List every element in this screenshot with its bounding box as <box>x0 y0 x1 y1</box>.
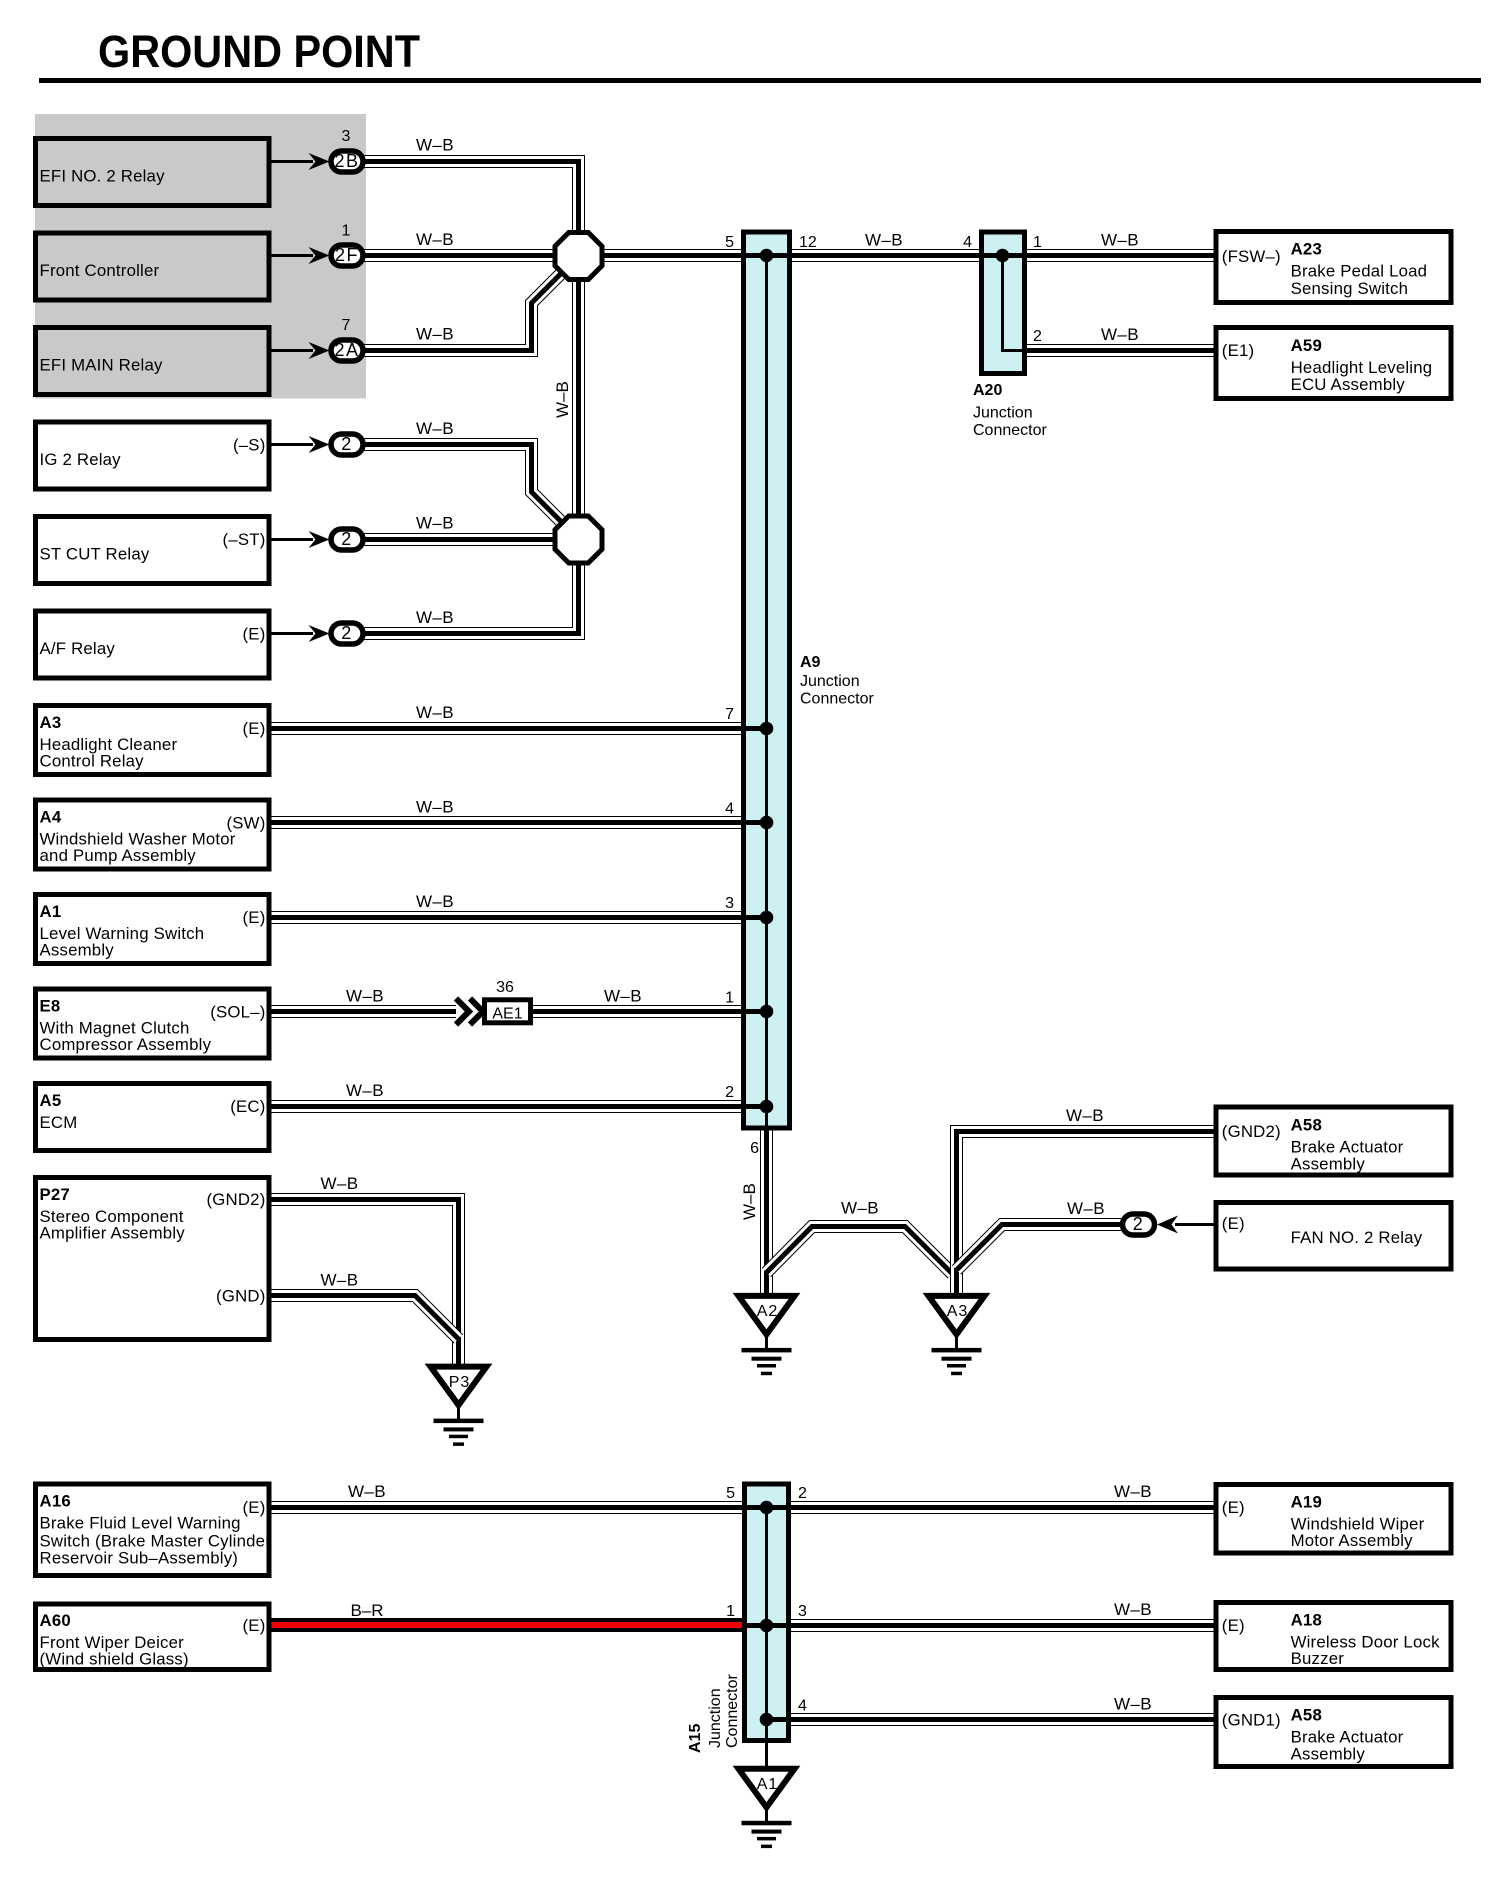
svg-text:B–R: B–R <box>350 1601 383 1620</box>
svg-text:2: 2 <box>798 1485 807 1502</box>
svg-text:W–B: W–B <box>865 231 903 250</box>
component A23 Brake Pedal Load Sensing Switch <box>1216 232 1451 303</box>
component P27 Stereo Component Amplifier Assembly <box>36 1178 270 1340</box>
pin 36 label (AE1) <box>496 979 514 996</box>
svg-text:A2: A2 <box>757 1303 779 1320</box>
svg-text:(Wind shield Glass): (Wind shield Glass) <box>40 1650 189 1669</box>
connector AE1 <box>485 1000 531 1023</box>
svg-text:(E): (E) <box>1222 1214 1245 1233</box>
ground P3 <box>431 1367 487 1446</box>
A9 pin 6 <box>750 1140 759 1157</box>
wire A58 GND2 to ground A3 (W-B) <box>957 1132 1217 1295</box>
junction node upper (octagon) <box>555 233 602 280</box>
junction connector A15 <box>745 1484 789 1741</box>
svg-text:Switch (Brake Master Cylinder: Switch (Brake Master Cylinder <box>40 1531 272 1550</box>
connector 2F row 2 <box>331 245 363 266</box>
label A20 junction line1 <box>973 405 1033 422</box>
svg-text:Connector: Connector <box>724 1674 741 1748</box>
A9 pin 1 <box>725 990 734 1007</box>
svg-text:12: 12 <box>799 234 817 251</box>
svg-text:W–B: W–B <box>348 1482 386 1501</box>
W-B label A9-A20 <box>865 231 903 250</box>
wire A1 level switch to A9 pin 3 (W-B) <box>268 911 745 924</box>
svg-text:A1: A1 <box>40 902 62 921</box>
component A4 Windshield Washer Motor and Pump Assembly <box>36 800 270 869</box>
wire A15 pin 2 to A19 (W-B) <box>787 1501 1216 1514</box>
A15 pin 5 <box>726 1485 735 1502</box>
svg-text:A20: A20 <box>973 382 1002 399</box>
svg-text:3: 3 <box>798 1603 807 1620</box>
component FAN NO. 2 Relay <box>1216 1203 1451 1270</box>
junction node lower (octagon) <box>555 516 602 563</box>
svg-text:4: 4 <box>798 1698 807 1715</box>
pin 7 label (2A) <box>342 317 351 334</box>
svg-text:2B: 2B <box>334 151 359 171</box>
svg-text:EFI NO. 2 Relay: EFI NO. 2 Relay <box>40 167 166 186</box>
component A60 Front Wiper Deicer <box>36 1604 270 1670</box>
A15 pin 2 <box>798 1485 807 1502</box>
svg-text:W–B: W–B <box>346 1081 384 1100</box>
svg-text:2: 2 <box>725 1084 734 1101</box>
svg-text:A16: A16 <box>40 1492 71 1511</box>
wire FAN relay stub <box>1175 1223 1216 1226</box>
ground A3 <box>929 1296 985 1375</box>
W-B label E8 right <box>604 987 642 1006</box>
arrow into connector row 4 <box>309 436 330 453</box>
svg-text:W–B: W–B <box>416 230 454 249</box>
label A9 <box>800 654 821 671</box>
svg-text:P3: P3 <box>449 1374 471 1391</box>
svg-text:(–ST): (–ST) <box>223 530 266 549</box>
svg-text:FAN NO. 2 Relay: FAN NO. 2 Relay <box>1291 1228 1423 1247</box>
arrow into connector row 6 <box>309 625 330 642</box>
svg-text:A/F Relay: A/F Relay <box>40 639 116 658</box>
svg-text:ECU Assembly: ECU Assembly <box>1291 375 1406 394</box>
svg-text:ST CUT Relay: ST CUT Relay <box>40 545 150 564</box>
A9 pin 7 <box>725 706 734 723</box>
label A9 junction line1 <box>800 673 860 690</box>
wire stub row 2 <box>268 254 313 257</box>
W-B label row5 <box>416 514 454 533</box>
svg-text:A58: A58 <box>1291 1706 1322 1725</box>
component A5 ECM <box>36 1084 270 1151</box>
W-B label row6 <box>416 608 454 627</box>
svg-text:Assembly: Assembly <box>1291 1155 1366 1174</box>
component E8 With Magnet Clutch Compressor Assembly <box>36 989 270 1058</box>
wire stub row 4 <box>268 443 313 446</box>
W-B label row8 <box>416 798 454 817</box>
svg-text:1: 1 <box>725 990 734 1007</box>
W-B label A18 <box>1114 1600 1152 1619</box>
svg-text:Front Controller: Front Controller <box>40 261 160 280</box>
svg-text:A3: A3 <box>40 713 62 732</box>
wire A15 to ground A1 stem <box>765 1741 768 1768</box>
svg-text:A60: A60 <box>40 1611 71 1630</box>
svg-text:7: 7 <box>725 706 734 723</box>
W-B label row3 <box>416 325 454 344</box>
connector 2 row 4 <box>331 434 363 455</box>
component A/F Relay <box>36 611 270 678</box>
svg-text:5: 5 <box>725 234 734 251</box>
wire EFI NO.2 relay ground to node (W-B) <box>364 162 579 235</box>
A15 pin 3 <box>798 1603 807 1620</box>
A9 pin 12 <box>799 234 817 251</box>
svg-text:W–B: W–B <box>416 608 454 627</box>
svg-text:3: 3 <box>342 128 351 145</box>
wire stub row 3 <box>268 349 313 352</box>
svg-text:W–B: W–B <box>1067 1199 1105 1218</box>
label A15 junction line2 <box>724 1674 741 1748</box>
W-B label A19 <box>1114 1482 1152 1501</box>
arrow into connector row 1 <box>309 153 330 170</box>
svg-text:(SOL–): (SOL–) <box>210 1003 265 1022</box>
W-B label A16 <box>348 1482 386 1501</box>
wire A4 washer motor to A9 pin 4 (W-B) <box>268 816 745 829</box>
wire E8 compressor to AE1 (W-B) <box>268 1005 456 1018</box>
svg-text:Assembly: Assembly <box>40 941 115 960</box>
svg-text:(E): (E) <box>1222 1616 1245 1635</box>
pin 3 label (2B) <box>342 128 351 145</box>
label A15 <box>687 1724 704 1753</box>
component A1 Level Warning Switch Assembly <box>36 895 270 964</box>
W-B label row7 <box>416 703 454 722</box>
label A9 junction line2 <box>800 691 874 708</box>
svg-text:4: 4 <box>963 234 972 251</box>
arrow into connector row 3 <box>309 342 330 359</box>
wire stub row 5 <box>268 538 313 541</box>
B-R label A60 <box>350 1601 383 1620</box>
svg-text:W–B: W–B <box>553 381 572 418</box>
svg-text:W–B: W–B <box>1114 1695 1152 1714</box>
svg-text:(E): (E) <box>243 1616 266 1635</box>
W-B label row1 <box>416 136 454 155</box>
W-B label row2 <box>416 230 454 249</box>
svg-text:W–B: W–B <box>320 1174 358 1193</box>
wire stub row 1 <box>268 160 313 163</box>
wire AE1 to A9 pin 1 (W-B) <box>533 1005 745 1018</box>
svg-text:2: 2 <box>341 623 353 643</box>
svg-text:(E): (E) <box>243 719 266 738</box>
svg-text:Brake Pedal Load: Brake Pedal Load <box>1291 262 1428 281</box>
svg-text:1: 1 <box>726 1603 735 1620</box>
title GROUND POINT <box>98 26 420 77</box>
wire P27 GND to ground P3 (W-B) <box>268 1296 459 1340</box>
component EFI NO. 2 Relay <box>36 139 270 206</box>
W-B label P27 GND <box>320 1271 358 1290</box>
svg-text:A23: A23 <box>1291 240 1322 259</box>
A20 pin 4 <box>963 234 972 251</box>
component A58 Brake Actuator Assembly (GND2) <box>1216 1107 1451 1175</box>
svg-text:(GND2): (GND2) <box>1222 1122 1281 1141</box>
svg-text:7: 7 <box>342 317 351 334</box>
wire A/F relay ground (W-B) <box>364 562 579 634</box>
svg-text:W–B: W–B <box>1114 1482 1152 1501</box>
svg-text:(E): (E) <box>1222 1498 1245 1517</box>
svg-text:2F: 2F <box>335 245 359 265</box>
connector 2B row 1 <box>331 151 363 172</box>
svg-text:W–B: W–B <box>841 1199 879 1218</box>
arrow into connector row 2 <box>309 247 330 264</box>
component ST CUT Relay <box>36 517 270 584</box>
svg-text:(GND1): (GND1) <box>1222 1711 1281 1730</box>
svg-text:A4: A4 <box>40 808 62 827</box>
wire FAN relay branch to ground A3 (W-B) <box>957 1225 1122 1271</box>
svg-text:2: 2 <box>1133 1214 1145 1234</box>
svg-text:A58: A58 <box>1291 1116 1322 1135</box>
svg-text:Junction: Junction <box>800 673 860 690</box>
svg-text:A5: A5 <box>40 1091 62 1110</box>
svg-text:IG 2 Relay: IG 2 Relay <box>40 450 122 469</box>
component EFI MAIN Relay <box>36 328 270 395</box>
svg-text:W–B: W–B <box>416 892 454 911</box>
svg-text:1: 1 <box>342 223 351 240</box>
wire A5 ECM to A9 pin 2 (W-B) <box>268 1100 745 1113</box>
svg-text:Amplifier Assembly: Amplifier Assembly <box>40 1224 186 1243</box>
svg-text:W–B: W–B <box>740 1183 759 1220</box>
svg-text:W–B: W–B <box>346 987 384 1006</box>
A15 pin 1 <box>726 1603 735 1620</box>
wire A16 to A15 pin 5 (W-B) <box>268 1501 746 1514</box>
component A3 Headlight Cleaner Control Relay <box>36 706 270 775</box>
svg-text:4: 4 <box>725 801 734 818</box>
component A59 Headlight Leveling ECU Assembly <box>1216 328 1451 399</box>
wire A9 pin 6 to ground A2 (W-B) <box>760 1128 773 1294</box>
svg-text:Reservoir Sub–Assembly): Reservoir Sub–Assembly) <box>40 1549 239 1568</box>
svg-text:Motor Assembly: Motor Assembly <box>1291 1531 1414 1550</box>
svg-text:(FSW–): (FSW–) <box>1222 247 1281 266</box>
wire branch ground A2 to ground A3 (W-B) <box>767 1227 953 1275</box>
W-B label A9 pin6 <box>740 1183 759 1220</box>
svg-text:A9: A9 <box>800 654 821 671</box>
svg-text:(E): (E) <box>243 625 266 644</box>
wire IG 2 relay ground (W-B) <box>364 445 562 523</box>
svg-text:and Pump Assembly: and Pump Assembly <box>40 846 197 865</box>
wire A3 relay to A9 pin 7 (W-B) <box>268 722 745 735</box>
svg-text:A18: A18 <box>1291 1611 1322 1630</box>
wire A20 pin 2 to A59 (W-B) <box>1023 344 1216 357</box>
svg-text:E8: E8 <box>40 997 61 1016</box>
svg-text:2: 2 <box>1033 328 1042 345</box>
W-B label A5 <box>346 1081 384 1100</box>
junction connector A20 <box>981 232 1026 374</box>
component A16 Brake Fluid Level Warning Switch <box>36 1484 272 1576</box>
svg-text:AE1: AE1 <box>492 1006 522 1023</box>
svg-text:Compressor Assembly: Compressor Assembly <box>40 1035 212 1054</box>
connector 2 row 6 <box>331 623 363 644</box>
wire node to A9 pin 5 (W-B) <box>600 249 745 262</box>
svg-text:A1: A1 <box>757 1776 779 1793</box>
component A19 Windshield Wiper Motor Assembly <box>1216 1485 1451 1554</box>
svg-text:W–B: W–B <box>416 325 454 344</box>
svg-text:A3: A3 <box>947 1303 969 1320</box>
wire A20 pin 1 to A23 (W-B) <box>1023 249 1216 262</box>
svg-text:W–B: W–B <box>1114 1600 1152 1619</box>
svg-text:GROUND POINT: GROUND POINT <box>98 26 420 77</box>
A9 pin 3 <box>725 895 734 912</box>
svg-text:W–B: W–B <box>1066 1106 1104 1125</box>
gray highlight panel <box>35 114 366 399</box>
A9 pin 2 <box>725 1084 734 1101</box>
svg-text:W–B: W–B <box>604 987 642 1006</box>
wire P27 GND2 to ground P3 (W-B) <box>268 1200 459 1365</box>
svg-text:A15: A15 <box>687 1724 704 1753</box>
connector 2 row 5 <box>331 529 363 550</box>
wire A9 pin 12 to A20 pin 4 (W-B) <box>789 249 985 262</box>
W-B label A20-A59 <box>1101 325 1139 344</box>
component IG 2 Relay <box>36 422 270 489</box>
svg-text:ECM: ECM <box>40 1113 78 1132</box>
svg-text:(E1): (E1) <box>1222 341 1255 360</box>
svg-text:W–B: W–B <box>416 798 454 817</box>
svg-text:W–B: W–B <box>320 1271 358 1290</box>
component Front Controller <box>36 233 270 300</box>
svg-text:36: 36 <box>496 979 514 996</box>
A20 pin 2 <box>1033 328 1042 345</box>
svg-text:Sensing Switch: Sensing Switch <box>1291 279 1409 298</box>
connector AE1 chevrons <box>456 999 483 1025</box>
svg-text:Junction: Junction <box>707 1688 724 1748</box>
svg-text:W–B: W–B <box>416 136 454 155</box>
connector 2 FAN relay <box>1123 1214 1155 1235</box>
W-B label row9 <box>416 892 454 911</box>
W-B label row4 <box>416 419 454 438</box>
label A15 junction line1 <box>707 1688 724 1748</box>
svg-text:P27: P27 <box>40 1185 70 1204</box>
title underline <box>39 78 1481 83</box>
pin 1 label (2F) <box>342 223 351 240</box>
svg-text:Connector: Connector <box>800 691 874 708</box>
wire junction riser between nodes (W-B) <box>572 278 585 517</box>
svg-text:A19: A19 <box>1291 1493 1322 1512</box>
svg-text:5: 5 <box>726 1485 735 1502</box>
svg-text:A59: A59 <box>1291 336 1322 355</box>
label A20 <box>973 382 1002 399</box>
svg-text:2: 2 <box>341 529 353 549</box>
junction connector A9 <box>744 232 790 1129</box>
svg-text:Brake Fluid Level Warning: Brake Fluid Level Warning <box>40 1514 241 1533</box>
svg-text:2: 2 <box>341 434 353 454</box>
W-B label E8 left <box>346 987 384 1006</box>
ground A2 <box>739 1296 795 1375</box>
svg-text:(GND2): (GND2) <box>206 1190 265 1209</box>
svg-text:Assembly: Assembly <box>1291 1745 1366 1764</box>
ground A1 <box>739 1769 795 1848</box>
svg-text:Control Relay: Control Relay <box>40 752 145 771</box>
wire A60 deicer to A15 pin 1 (B-R) <box>268 1618 746 1632</box>
A15 pin 4 <box>798 1698 807 1715</box>
svg-text:EFI MAIN Relay: EFI MAIN Relay <box>40 356 163 375</box>
wire EFI MAIN relay ground (W-B) <box>364 274 561 351</box>
svg-text:6: 6 <box>750 1140 759 1157</box>
svg-text:(E): (E) <box>243 1498 266 1517</box>
svg-text:(E): (E) <box>243 908 266 927</box>
component A18 Wireless Door Lock Buzzer <box>1216 1603 1451 1670</box>
svg-text:2A: 2A <box>334 340 359 360</box>
svg-text:W–B: W–B <box>1101 231 1139 250</box>
connector 2A row 3 <box>331 340 363 361</box>
svg-text:(–S): (–S) <box>233 436 266 455</box>
W-B label A20-A23 <box>1101 231 1139 250</box>
svg-text:W–B: W–B <box>1101 325 1139 344</box>
wire ST CUT relay ground (W-B) <box>364 533 556 546</box>
svg-text:W–B: W–B <box>416 419 454 438</box>
W-B label FAN <box>1067 1199 1105 1218</box>
svg-text:Connector: Connector <box>973 422 1047 439</box>
arrow into FAN relay connector <box>1157 1216 1178 1234</box>
svg-text:W–B: W–B <box>416 514 454 533</box>
component A58 Brake Actuator Assembly (GND1) <box>1216 1698 1451 1767</box>
W-B label A58 GND1 <box>1114 1695 1152 1714</box>
wire Front Controller ground (W-B) <box>364 249 745 262</box>
svg-text:1: 1 <box>1033 234 1042 251</box>
wire A15 pin 3 to A18 (W-B) <box>787 1619 1216 1632</box>
A20 pin 1 <box>1033 234 1042 251</box>
W-B label A2-A3 branch <box>841 1199 879 1218</box>
svg-text:Junction: Junction <box>973 405 1033 422</box>
svg-text:Buzzer: Buzzer <box>1291 1649 1345 1668</box>
svg-text:(GND): (GND) <box>216 1287 265 1306</box>
wire stub row 6 <box>268 632 313 635</box>
wire A15 pin 4 to A58 GND1 (W-B) <box>787 1713 1216 1726</box>
W-B label riser <box>553 381 572 418</box>
A9 pin 4 <box>725 801 734 818</box>
svg-text:3: 3 <box>725 895 734 912</box>
W-B label A58 GND2 <box>1066 1106 1104 1125</box>
A9 pin 5 <box>725 234 734 251</box>
arrow into connector row 5 <box>309 531 330 548</box>
svg-text:W–B: W–B <box>416 703 454 722</box>
svg-text:(EC): (EC) <box>230 1097 265 1116</box>
W-B label P27 GND2 <box>320 1174 358 1193</box>
label A20 junction line2 <box>973 422 1047 439</box>
